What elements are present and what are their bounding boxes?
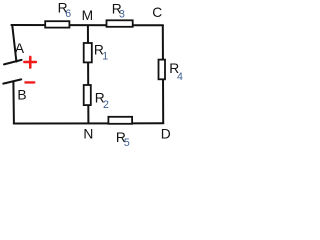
svg-text:N: N — [83, 127, 93, 142]
svg-text:2: 2 — [103, 99, 109, 111]
resistor R5 box — [108, 117, 132, 124]
svg-text:M: M — [82, 8, 94, 23]
svg-text:6: 6 — [65, 8, 71, 20]
wire bottom (B-N-D rail) — [14, 122, 164, 124]
wire left upper (corner to terminal A) — [12, 26, 16, 62]
svg-text:1: 1 — [102, 50, 108, 62]
wire middle branch (M to N) — [87, 25, 90, 123]
resistor R1 box — [84, 43, 92, 62]
resistor R3 box — [107, 20, 133, 27]
svg-text:C: C — [152, 5, 162, 20]
svg-text:B: B — [17, 87, 26, 102]
svg-text:A: A — [15, 41, 25, 56]
terminal tick A — [4, 60, 22, 65]
wire right vertical (C to D) — [162, 25, 164, 122]
svg-text:4: 4 — [177, 71, 183, 83]
resistor R2 box — [84, 85, 91, 105]
wire top (A-M-C rail) — [11, 24, 163, 26]
resistor R6 box — [45, 21, 69, 27]
battery polarity minus (red) — [25, 81, 34, 83]
terminal tick B — [3, 79, 21, 83]
wire left lower (terminal B to corner) — [12, 82, 15, 123]
svg-text:D: D — [161, 127, 171, 142]
svg-text:3: 3 — [119, 8, 125, 20]
battery polarity plus (red) — [24, 57, 36, 68]
resistor R4 box — [159, 60, 166, 80]
svg-text:5: 5 — [124, 137, 130, 149]
